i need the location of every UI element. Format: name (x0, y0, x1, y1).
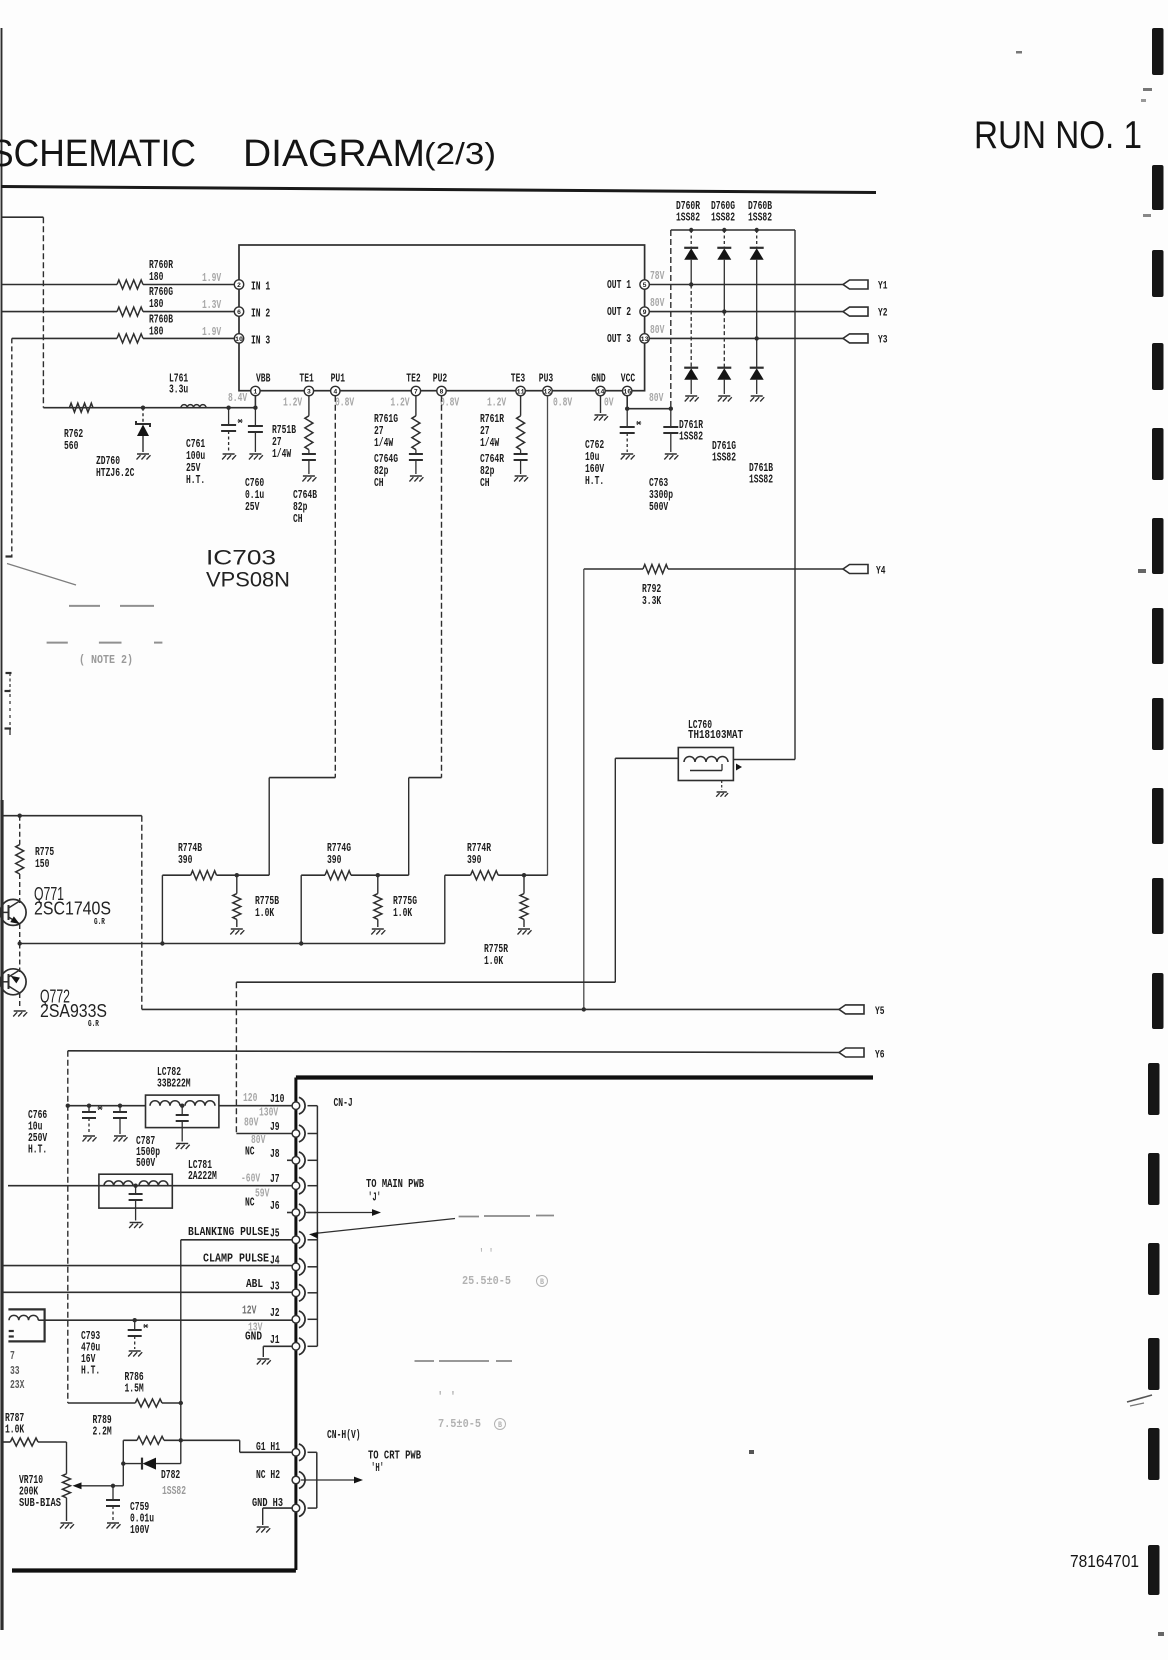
diode D760G (722, 228, 726, 232)
resistor R774G (325, 871, 351, 880)
svg-text:7.5±0-5: 7.5±0-5 (438, 1417, 481, 1431)
svg-text:12V: 12V (242, 1304, 257, 1318)
svg-text:IN 2: IN 2 (251, 307, 270, 321)
svg-text:J4: J4 (270, 1253, 280, 1267)
wire J6 NC stub (287, 1212, 292, 1214)
svg-text:TE2: TE2 (406, 372, 420, 386)
junction R775R (522, 873, 526, 877)
svg-text:78V: 78V (650, 269, 665, 283)
row wire R774R (445, 874, 471, 876)
svg-text:1SS82: 1SS82 (711, 211, 735, 225)
diode D761R (690, 285, 692, 368)
svg-text:1SS82: 1SS82 (712, 451, 736, 465)
svg-text:CH: CH (374, 476, 384, 490)
svg-text:1.2V: 1.2V (487, 396, 507, 410)
svg-text:33B222M: 33B222M (157, 1077, 191, 1091)
svg-text:J10: J10 (270, 1092, 284, 1106)
wire Y4 line (584, 568, 643, 570)
diode D782 loop left side (122, 1440, 124, 1463)
svg-text:12: 12 (544, 388, 552, 395)
connector flag Y6 (839, 1048, 864, 1057)
wire lower bus to J9 drop (236, 981, 615, 983)
svg-text:100V: 100V (130, 1523, 150, 1537)
resistor R760B (117, 334, 143, 343)
LC760 ground stub (721, 781, 723, 791)
wire R792 to Y4 flag (668, 568, 843, 570)
wire R760G to pin 6 (143, 311, 235, 313)
wire VBB feed horizontal (43, 407, 255, 409)
wire LC760 left lead (615, 757, 678, 759)
pin 11 TE3 (516, 386, 525, 395)
svg-text:' ': ' ' (479, 1247, 493, 1261)
svg-text:J2: J2 (270, 1306, 280, 1320)
wire Y5 line (142, 1008, 839, 1010)
LC781 coils (104, 1181, 133, 1186)
svg-text:120: 120 (243, 1091, 257, 1105)
svg-text:6: 6 (237, 309, 241, 316)
vertical stub below IN3 corner (11, 338, 13, 556)
pin 1 VBB (251, 386, 260, 395)
wire R787 from left edge (2, 1441, 11, 1443)
C787 ground (114, 1135, 126, 1137)
vertical wire pin 12 down (547, 396, 549, 876)
svg-text:G.R: G.R (88, 1019, 99, 1029)
diode D782 (123, 1463, 142, 1465)
svg-text:G1 H1: G1 H1 (256, 1440, 280, 1454)
D761G ground (718, 395, 730, 397)
row wire R774G (301, 874, 325, 876)
pin 16 VCC (623, 386, 632, 395)
LC782 coils (150, 1101, 180, 1106)
svg-text:CN-J: CN-J (334, 1096, 353, 1110)
diode block right rail down to LC760 (794, 230, 796, 760)
svg-text:H.T.: H.T. (81, 1364, 100, 1378)
junction on Y wire for D761R (689, 282, 693, 286)
wire J4 clamp pulse from left edge (2, 1265, 293, 1267)
svg-text:VPS08N: VPS08N (206, 568, 290, 592)
svg-text:IC703: IC703 (206, 546, 276, 570)
svg-text:0.8V: 0.8V (440, 396, 460, 410)
connector bottom rail (12, 1568, 296, 1572)
boxed inductor at left edge (8, 1309, 44, 1341)
wire R789 row (123, 1439, 137, 1441)
LC781 internal capacitor (135, 1186, 137, 1194)
resistor R786 (135, 1399, 162, 1407)
svg-text:CH: CH (480, 476, 490, 490)
wire J9 drop to pin (236, 1133, 292, 1135)
zener diode ZD760 (142, 408, 144, 424)
svg-text:PU2: PU2 (433, 372, 447, 386)
capacitor C760 (254, 408, 256, 426)
svg-text:1.0K: 1.0K (5, 1423, 25, 1437)
vertical wire Y6 branch down left side (67, 1051, 69, 1403)
wire OUT3 to Y3 (649, 337, 843, 339)
svg-text:390: 390 (327, 853, 341, 867)
junction on Y wire for D761B (755, 336, 759, 340)
pin 4 PU1 (331, 386, 340, 395)
wire corner from left border to VBB line (2, 216, 44, 218)
svg-text:GND: GND (245, 1330, 262, 1344)
svg-text:1/4W: 1/4W (480, 436, 500, 450)
connector flag Y1 (843, 280, 868, 289)
IC U703 body box (239, 245, 645, 391)
svg-text:NC: NC (245, 1145, 255, 1159)
capacitor C763 (670, 409, 672, 427)
svg-text:TH18103MAT: TH18103MAT (688, 728, 743, 742)
svg-text:80V: 80V (650, 296, 665, 310)
diode D761B (756, 338, 758, 367)
svg-text:5: 5 (643, 282, 647, 289)
svg-text:14: 14 (597, 388, 605, 395)
svg-text:1SS82: 1SS82 (679, 430, 703, 444)
svg-text:( NOTE 2): ( NOTE 2) (79, 653, 133, 667)
svg-text:80V: 80V (649, 391, 664, 405)
svg-text:OUT 3: OUT 3 (607, 332, 631, 346)
connector flag Y5 (839, 1005, 864, 1014)
connector pin J8 (299, 1152, 305, 1169)
svg-text:GND: GND (591, 372, 605, 386)
transistor Q772 (0, 969, 26, 995)
C764G ground (410, 475, 422, 477)
svg-text:500V: 500V (136, 1156, 156, 1170)
svg-text:59V: 59V (255, 1187, 270, 1201)
svg-text:(2/3): (2/3) (424, 136, 496, 171)
connector pin J5 (299, 1231, 305, 1248)
svg-text:25.5±0-5: 25.5±0-5 (462, 1274, 511, 1288)
capacitor C787 (118, 1104, 122, 1108)
wire IN3 corner from left (12, 337, 117, 339)
LC760 coil (684, 757, 728, 763)
svg-text:'J': 'J' (368, 1191, 381, 1205)
junction node ZD760 tap (141, 406, 145, 410)
LC782 ground (176, 1143, 188, 1145)
connector pin J1 (299, 1338, 305, 1355)
svg-text:1.2V: 1.2V (390, 396, 410, 410)
capacitor C764B (308, 450, 310, 454)
svg-text:9: 9 (643, 309, 647, 316)
capacitor C764R (520, 450, 522, 454)
connector pin J3 (299, 1284, 305, 1301)
diode D760B (755, 228, 759, 232)
wire R786 row (68, 1402, 136, 1404)
svg-text:16: 16 (623, 388, 631, 395)
LC782 filter box (146, 1095, 219, 1128)
resistor R774R (471, 871, 499, 880)
svg-text:13: 13 (641, 336, 649, 343)
pin 10 IN 3 (234, 334, 243, 343)
svg-text:H.T.: H.T. (585, 474, 604, 488)
svg-text:1.2V: 1.2V (283, 396, 303, 410)
C764B ground (303, 475, 315, 477)
svg-text:500V: 500V (649, 500, 669, 514)
svg-text:7: 7 (10, 1349, 15, 1363)
CN-H right bracket (316, 1452, 318, 1508)
svg-text:2SC1740S: 2SC1740S (34, 899, 111, 919)
wire R760R to pin 2 (143, 284, 235, 286)
connector top rail (296, 1075, 873, 1079)
wire J5 blanking pulse line (181, 1239, 292, 1241)
svg-text:Y5: Y5 (875, 1006, 885, 1018)
wire H3 ground (263, 1507, 292, 1509)
wire J2 12V line (45, 1319, 293, 1321)
junction node C760 tap (253, 406, 257, 410)
svg-text:180: 180 (149, 297, 163, 311)
svg-text:OUT 1: OUT 1 (607, 278, 631, 292)
svg-text:CLAMP PULSE: CLAMP PULSE (203, 1252, 269, 1266)
arrow into J5 (313, 1219, 455, 1234)
svg-text:J9: J9 (270, 1120, 280, 1134)
horizontal rule under title (1, 187, 876, 193)
svg-text:33: 33 (10, 1364, 20, 1378)
inductor L761 (181, 405, 206, 408)
svg-text:2: 2 (237, 282, 241, 289)
svg-text:1.0K: 1.0K (255, 906, 275, 920)
bottom bus wire of RGB driver (20, 943, 445, 945)
svg-text:H.T.: H.T. (186, 473, 205, 487)
connector pin J7 (299, 1177, 305, 1194)
wire G1 to H1 (181, 1439, 240, 1441)
junction node C761 tap (226, 406, 230, 410)
pin 12 PU3 (543, 386, 552, 395)
LC781 filter box (99, 1174, 172, 1208)
diode block top rail (671, 229, 795, 231)
C759 ground (107, 1522, 119, 1524)
connector flag Y3 (843, 334, 868, 343)
vertical wire pin 8 down (441, 396, 443, 778)
svg-text:1.9V: 1.9V (202, 271, 222, 285)
wire J8 NC stub (287, 1159, 292, 1161)
svg-text:'H': 'H' (371, 1461, 384, 1475)
R775G ground (372, 928, 384, 930)
C760 ground (249, 453, 261, 455)
pin 14 GND (596, 386, 605, 395)
Q772 ground (14, 1010, 26, 1012)
svg-text:CN-H(V): CN-H(V) (327, 1428, 361, 1442)
ZD760 ground (137, 453, 149, 455)
svg-text:11: 11 (517, 388, 525, 395)
resistor R775B (236, 875, 238, 893)
svg-text:0V: 0V (604, 396, 614, 410)
svg-text:8: 8 (440, 388, 444, 395)
resistor R775G (377, 875, 379, 893)
resistor R792 (643, 565, 668, 574)
svg-text:4: 4 (333, 388, 337, 395)
vertical wire Y4 node down to Y5 wire (583, 569, 585, 1009)
wire IN2 from left edge (2, 311, 118, 313)
connector flag Y4 (843, 565, 868, 574)
R775B ground (231, 928, 243, 930)
wire J3 ABL from left edge (2, 1291, 293, 1293)
diode block left rail (670, 230, 672, 409)
wire LC782 to J10 pin (219, 1105, 292, 1107)
svg-text:0.8V: 0.8V (335, 396, 355, 410)
svg-text:VCC: VCC (621, 372, 635, 386)
wire J1 ground (263, 1345, 292, 1347)
svg-text:390: 390 (467, 853, 481, 867)
svg-text:7: 7 (414, 388, 418, 395)
svg-text:Y4: Y4 (876, 566, 886, 578)
LC760 arrow mark (736, 764, 742, 771)
svg-text:J1: J1 (270, 1333, 280, 1347)
svg-text:1.0K: 1.0K (393, 906, 413, 920)
scan speckles (1143, 88, 1152, 91)
svg-text:CH: CH (293, 512, 303, 526)
svg-text:J6: J6 (270, 1199, 280, 1213)
svg-text:2A222M: 2A222M (188, 1169, 217, 1183)
staircase wire pin8 (409, 777, 442, 779)
svg-text:J5: J5 (270, 1226, 280, 1240)
resistor R751B below pin (308, 396, 310, 416)
capacitor C762 (626, 409, 628, 427)
connector pin J10 (299, 1097, 305, 1114)
svg-text:2SA933S: 2SA933S (40, 1001, 107, 1021)
svg-text:3.3K: 3.3K (642, 594, 662, 608)
C793 ground (129, 1350, 141, 1352)
svg-text:80V: 80V (244, 1116, 259, 1130)
svg-text:ABL: ABL (246, 1277, 263, 1291)
junction R775G (376, 873, 380, 877)
svg-text:1SS82: 1SS82 (748, 211, 772, 225)
connector pin J2 (299, 1311, 305, 1328)
svg-text:80V: 80V (650, 323, 665, 337)
potentiometer VR710 (66, 1442, 68, 1474)
svg-text:8.4V: 8.4V (228, 391, 248, 405)
svg-text:SUB-BIAS: SUB-BIAS (19, 1496, 61, 1510)
svg-text:1SS82: 1SS82 (749, 473, 773, 487)
D761B ground (751, 395, 763, 397)
svg-text:390: 390 (178, 853, 192, 867)
wire to VR710 wiper (122, 1464, 124, 1486)
svg-text:D782: D782 (161, 1468, 180, 1482)
wire R760B to pin 10 (143, 337, 235, 339)
svg-text:23X: 23X (10, 1378, 25, 1392)
connector pin J4 (299, 1258, 305, 1275)
svg-text:1.5M: 1.5M (125, 1382, 144, 1396)
connector pin J6 (299, 1204, 305, 1221)
wire J7 line from left (8, 1185, 292, 1187)
pin 9 OUT 2 (640, 307, 649, 316)
resistor R762 (69, 403, 93, 412)
vertical wire Q771 branch down to Y5 line (141, 816, 143, 1010)
svg-text:1.0K: 1.0K (484, 954, 504, 968)
svg-text:B: B (540, 1278, 544, 1287)
svg-text:NC: NC (245, 1196, 255, 1210)
svg-text:25V: 25V (245, 500, 260, 514)
capacitor C761 (228, 408, 230, 425)
svg-text:1: 1 (253, 388, 257, 395)
arrow H2 to crt pwb (301, 1479, 354, 1481)
svg-text:VBB: VBB (256, 372, 270, 386)
svg-text:2.2M: 2.2M (93, 1425, 112, 1439)
svg-text:OUT 2: OUT 2 (607, 305, 631, 319)
svg-text:PU3: PU3 (539, 372, 553, 386)
diode D760R (689, 228, 693, 232)
left page border line (1, 28, 3, 800)
row wire R774B (162, 874, 190, 876)
resistor R775 (19, 816, 21, 845)
80V rail wire (627, 408, 671, 410)
svg-text:3: 3 (307, 388, 311, 395)
pin 5 OUT 1 (640, 280, 649, 289)
C761 ground (223, 453, 235, 455)
resistor R761R below pin (520, 396, 522, 416)
svg-text:NC H2: NC H2 (256, 1468, 280, 1482)
pin 3 TE1 (304, 386, 313, 395)
pin 8 PU2 (437, 386, 446, 395)
connector pin H1 (299, 1444, 305, 1461)
vertical wire pin 4 down (334, 396, 336, 778)
resistor R789 (137, 1436, 164, 1444)
connector pin J9 (299, 1125, 305, 1142)
C763 ground (665, 453, 677, 455)
R775R ground (518, 928, 530, 930)
wire OUT2 to Y2 (649, 311, 843, 313)
svg-text:1/4W: 1/4W (374, 436, 394, 450)
capacitor C793 (133, 1318, 137, 1322)
connector pin H2 (299, 1472, 305, 1489)
svg-text:IN 3: IN 3 (251, 334, 270, 348)
C766 ground (83, 1135, 95, 1137)
svg-text:J7: J7 (270, 1172, 280, 1186)
svg-text:1.9V: 1.9V (202, 325, 222, 339)
svg-text:0.8V: 0.8V (553, 396, 573, 410)
svg-text:DIAGRAM: DIAGRAM (243, 133, 425, 175)
svg-text:TE3: TE3 (511, 372, 525, 386)
svg-text:180: 180 (149, 270, 163, 284)
C764R ground (515, 475, 527, 477)
LC781 ground (130, 1222, 142, 1224)
svg-text:1SS82: 1SS82 (162, 1484, 186, 1498)
LC782 internal capacitor (181, 1106, 183, 1115)
svg-text:IN 1: IN 1 (251, 280, 270, 294)
vertical wire LC760 left to lower bus (614, 758, 616, 982)
junction on Y wire for D761G (722, 309, 726, 313)
svg-text:BLANKING PULSE: BLANKING PULSE (188, 1225, 269, 1239)
CN-J right bracket (316, 1106, 318, 1347)
svg-text:B: B (498, 1421, 502, 1430)
transistor Q771 (0, 899, 26, 925)
pin 6 IN 2 (234, 307, 243, 316)
svg-text:3.3u: 3.3u (169, 383, 188, 397)
svg-text:-60V: -60V (241, 1172, 261, 1186)
LC760 internal bar (690, 770, 722, 772)
wire LC760 right lead to diode rail vertical (733, 759, 795, 761)
pin 2 IN 1 (234, 280, 243, 289)
svg-text:RUN NO. 1: RUN NO. 1 (974, 114, 1142, 157)
wire J10 line (68, 1105, 146, 1107)
svg-text:1SS82: 1SS82 (676, 211, 700, 225)
pin 7 TE2 (411, 386, 420, 395)
vertical wire J5 down to R786 node (180, 1240, 182, 1441)
svg-text:Y3: Y3 (878, 334, 888, 346)
resistor R761G below pin (415, 396, 417, 416)
svg-text:TE1: TE1 (299, 372, 313, 386)
D761R ground (685, 395, 697, 397)
svg-text:1/4W: 1/4W (272, 447, 292, 461)
junction R775B (235, 873, 239, 877)
svg-text:150: 150 (35, 857, 49, 871)
wire base feed from left border (2, 815, 142, 817)
diode D761G (723, 312, 725, 368)
capacitor C764G (415, 450, 417, 454)
wire OUT1 to Y1 (649, 284, 843, 286)
vertical drop B group (161, 875, 163, 943)
faint dash marks (69, 605, 100, 607)
pin 13 OUT 3 (640, 334, 649, 343)
svg-text:180: 180 (149, 325, 163, 339)
faint dash row near J5 (459, 1216, 479, 1218)
pin 16 stub to 80V rail (626, 396, 628, 409)
